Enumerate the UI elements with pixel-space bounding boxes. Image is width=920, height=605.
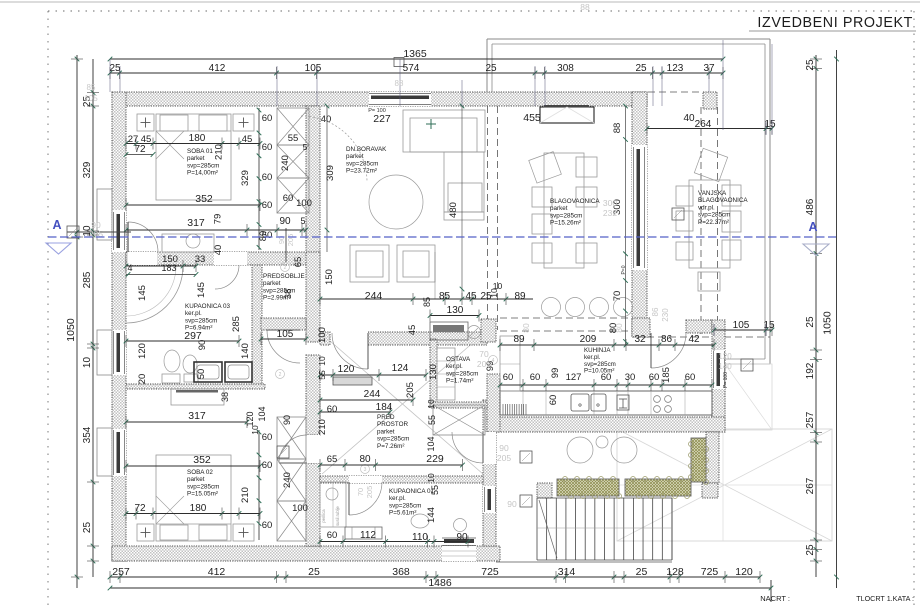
svg-text:10: 10: [426, 473, 436, 483]
svg-text:60: 60: [262, 142, 273, 153]
svg-text:55: 55: [427, 415, 437, 425]
svg-text:60: 60: [503, 372, 514, 383]
svg-text:574: 574: [403, 63, 420, 74]
svg-text:329: 329: [82, 161, 93, 178]
svg-text:25: 25: [805, 544, 816, 556]
svg-text:4: 4: [127, 263, 132, 273]
svg-text:285: 285: [231, 316, 242, 332]
svg-text:38: 38: [220, 392, 230, 402]
svg-text:45: 45: [242, 134, 253, 145]
svg-text:vdr.pl.: vdr.pl.: [698, 204, 715, 211]
svg-text:90: 90: [499, 443, 509, 453]
svg-text:25: 25: [805, 316, 816, 328]
svg-text:184: 184: [376, 402, 393, 413]
svg-text:104: 104: [426, 436, 436, 451]
svg-text:85: 85: [422, 297, 432, 307]
svg-text:20: 20: [137, 374, 148, 385]
svg-text:70: 70: [479, 349, 489, 359]
svg-text:25: 25: [805, 59, 816, 71]
svg-text:354: 354: [82, 426, 93, 443]
svg-text:NACRT :: NACRT :: [760, 594, 790, 603]
svg-text:P=5.61m²: P=5.61m²: [389, 510, 416, 517]
svg-text:parket: parket: [377, 428, 395, 435]
svg-text:1365: 1365: [403, 48, 427, 60]
svg-text:40: 40: [213, 245, 224, 256]
svg-text:25: 25: [636, 566, 648, 578]
svg-text:15: 15: [763, 320, 775, 331]
svg-text:25: 25: [308, 566, 320, 578]
svg-text:192: 192: [805, 362, 816, 379]
svg-text:60: 60: [548, 395, 559, 406]
svg-text:svp=285cm: svp=285cm: [187, 483, 219, 490]
svg-text:127: 127: [566, 372, 582, 383]
svg-text:40: 40: [683, 113, 695, 124]
svg-text:130: 130: [428, 364, 439, 380]
svg-text:105: 105: [733, 320, 750, 331]
svg-text:P=15.05m²: P=15.05m²: [187, 491, 218, 498]
svg-text:90: 90: [456, 532, 468, 543]
svg-text:svp=285cm: svp=285cm: [187, 162, 219, 169]
svg-text:OSTAVA: OSTAVA: [446, 356, 471, 363]
svg-text:210: 210: [317, 419, 328, 435]
svg-text:308: 308: [557, 63, 574, 74]
svg-text:10: 10: [82, 357, 93, 369]
svg-text:BLAGOVAONICA: BLAGOVAONICA: [698, 197, 748, 204]
svg-text:svp=285cm: svp=285cm: [389, 502, 421, 509]
svg-text:30: 30: [625, 372, 636, 383]
svg-text:parket: parket: [346, 153, 364, 160]
svg-text:120: 120: [718, 352, 732, 361]
svg-text:42: 42: [688, 334, 700, 345]
svg-text:svp=285cm: svp=285cm: [446, 370, 478, 377]
svg-text:120: 120: [735, 566, 753, 578]
svg-text:85: 85: [439, 291, 451, 302]
svg-text:parket: parket: [550, 205, 568, 212]
svg-text:P=2.99m²: P=2.99m²: [263, 295, 290, 302]
svg-text:88: 88: [612, 123, 623, 134]
svg-text:svp=285cm: svp=285cm: [263, 287, 295, 294]
svg-text:180: 180: [189, 133, 206, 144]
svg-text:100: 100: [292, 503, 308, 514]
svg-text:205: 205: [365, 486, 374, 499]
svg-text:PRED: PRED: [377, 414, 395, 421]
svg-text:150: 150: [324, 269, 335, 285]
svg-text:209: 209: [580, 334, 597, 345]
svg-text:P=23.72m²: P=23.72m²: [346, 168, 377, 175]
svg-text:3: 3: [364, 467, 367, 473]
svg-text:90: 90: [279, 216, 291, 227]
svg-text:205: 205: [497, 453, 511, 463]
svg-text:232: 232: [603, 208, 617, 218]
svg-text:KUPAONICA 01: KUPAONICA 01: [389, 488, 435, 495]
svg-text:120: 120: [338, 364, 355, 375]
svg-text:svp=285cm: svp=285cm: [550, 212, 582, 219]
svg-text:svp=285cm: svp=285cm: [185, 317, 217, 324]
svg-text:TLOCRT 1.KATA :: TLOCRT 1.KATA :: [856, 594, 914, 603]
svg-text:P=6.94m²: P=6.94m²: [185, 325, 212, 332]
svg-text:50: 50: [196, 369, 207, 380]
svg-text:P= 100: P= 100: [723, 372, 729, 388]
svg-text:60: 60: [327, 530, 338, 541]
svg-text:SOBA 02: SOBA 02: [187, 469, 213, 476]
svg-text:2: 2: [279, 372, 282, 378]
svg-text:309: 309: [325, 165, 336, 181]
svg-text:99: 99: [550, 368, 561, 379]
svg-text:264: 264: [695, 119, 712, 130]
svg-text:88: 88: [395, 79, 404, 88]
svg-text:80: 80: [359, 454, 371, 465]
svg-text:25: 25: [82, 522, 93, 534]
svg-text:240: 240: [280, 155, 291, 171]
svg-text:257: 257: [112, 566, 130, 578]
svg-text:297: 297: [184, 330, 202, 342]
svg-text:SOBA 01: SOBA 01: [187, 148, 213, 155]
svg-text:svp=285cm: svp=285cm: [346, 160, 378, 167]
svg-text:65: 65: [293, 257, 304, 268]
svg-text:412: 412: [208, 566, 226, 578]
svg-text:DN.BORAVAK: DN.BORAVAK: [346, 146, 387, 153]
svg-text:25: 25: [109, 63, 121, 74]
svg-text:300: 300: [603, 198, 617, 208]
svg-text:ker.pl.: ker.pl.: [446, 363, 463, 370]
svg-text:72: 72: [134, 503, 146, 514]
svg-text:60: 60: [262, 230, 273, 241]
svg-text:89: 89: [513, 334, 525, 345]
svg-text:BLAGOVAONICA: BLAGOVAONICA: [550, 198, 600, 205]
svg-text:90: 90: [507, 499, 517, 509]
svg-text:240: 240: [282, 472, 293, 488]
svg-text:P=22.37m²: P=22.37m²: [698, 219, 729, 226]
svg-text:352: 352: [193, 454, 211, 466]
svg-text:455: 455: [523, 112, 541, 124]
svg-text:60: 60: [649, 372, 660, 383]
svg-text:486: 486: [805, 198, 816, 215]
svg-text:140: 140: [240, 343, 251, 359]
svg-text:100: 100: [296, 198, 312, 209]
svg-text:110: 110: [412, 532, 428, 543]
svg-text:60: 60: [262, 432, 273, 443]
svg-text:P=0: P=0: [621, 265, 627, 274]
svg-text:89: 89: [514, 291, 526, 302]
svg-text:72: 72: [134, 144, 146, 155]
svg-text:55: 55: [317, 370, 327, 380]
svg-text:227: 227: [373, 113, 391, 125]
svg-text:123: 123: [667, 63, 684, 74]
svg-text:100: 100: [317, 327, 328, 343]
svg-text:144: 144: [426, 507, 437, 523]
svg-text:susil.rublje: susil.rublje: [335, 505, 340, 525]
svg-text:180: 180: [190, 503, 207, 514]
svg-text:IZVEDBENI PROJEKT: IZVEDBENI PROJEKT: [757, 15, 913, 31]
svg-text:P=1.74m²: P=1.74m²: [446, 378, 473, 385]
svg-text:267: 267: [805, 477, 816, 494]
svg-text:PREDSOBLJE: PREDSOBLJE: [263, 273, 305, 280]
svg-text:185: 185: [661, 367, 672, 383]
svg-text:257: 257: [805, 411, 816, 428]
svg-text:229: 229: [426, 453, 444, 465]
svg-text:104: 104: [257, 406, 267, 421]
svg-text:KUPAONICA 03: KUPAONICA 03: [185, 303, 231, 310]
svg-text:perilica: perilica: [321, 509, 326, 523]
svg-text:140: 140: [718, 362, 732, 371]
svg-text:65: 65: [327, 454, 338, 465]
svg-text:368: 368: [392, 566, 410, 578]
svg-text:2: 2: [284, 265, 287, 271]
svg-text:285: 285: [82, 271, 93, 288]
svg-text:P=15.26m²: P=15.26m²: [550, 220, 581, 227]
svg-text:480: 480: [448, 202, 459, 218]
svg-text:60: 60: [262, 460, 273, 471]
svg-text:PROSTOR: PROSTOR: [377, 421, 408, 428]
svg-text:VANJSKA: VANJSKA: [698, 190, 727, 197]
svg-text:352: 352: [195, 193, 213, 205]
svg-text:80: 80: [614, 323, 624, 333]
svg-text:33: 33: [195, 254, 206, 265]
svg-text:60: 60: [262, 113, 273, 124]
svg-text:112: 112: [360, 530, 376, 541]
svg-text:120: 120: [245, 411, 255, 426]
svg-text:45: 45: [407, 325, 418, 336]
svg-text:32: 32: [634, 334, 646, 345]
svg-text:86: 86: [661, 334, 673, 345]
svg-text:svp=285cm: svp=285cm: [698, 212, 730, 219]
svg-text:412: 412: [209, 63, 226, 74]
svg-text:parket: parket: [263, 280, 281, 287]
svg-text:105: 105: [84, 94, 98, 103]
svg-text:1486: 1486: [428, 577, 452, 589]
svg-text:130: 130: [447, 305, 464, 316]
svg-text:145: 145: [196, 282, 207, 298]
svg-text:314: 314: [558, 566, 576, 578]
svg-text:205: 205: [405, 382, 416, 398]
svg-text:10: 10: [250, 425, 260, 435]
svg-text:120: 120: [137, 343, 148, 359]
svg-text:60: 60: [685, 372, 696, 383]
svg-text:60: 60: [262, 520, 273, 531]
svg-text:90: 90: [282, 415, 292, 425]
svg-text:1050: 1050: [822, 311, 834, 335]
svg-text:55: 55: [288, 133, 299, 144]
svg-text:230: 230: [661, 308, 670, 322]
svg-text:60: 60: [262, 200, 273, 211]
svg-text:parket: parket: [187, 155, 205, 162]
svg-text:P=7.26m²: P=7.26m²: [377, 443, 404, 450]
svg-text:25: 25: [485, 63, 497, 74]
svg-text:60: 60: [530, 372, 541, 383]
svg-text:ker.pl.: ker.pl.: [389, 495, 406, 502]
svg-text:60: 60: [262, 172, 273, 183]
svg-text:parket: parket: [187, 476, 205, 483]
svg-text:ker.pl.: ker.pl.: [185, 310, 202, 317]
svg-text:329: 329: [240, 170, 251, 186]
svg-text:88: 88: [580, 2, 590, 12]
svg-text:P=10.05m²: P=10.05m²: [584, 368, 614, 375]
svg-text:210: 210: [214, 144, 225, 160]
svg-text:183: 183: [161, 263, 176, 273]
svg-text:P=14,00m²: P=14,00m²: [187, 170, 218, 177]
svg-text:725: 725: [481, 566, 499, 578]
svg-text:86: 86: [651, 307, 660, 316]
svg-text:79: 79: [213, 214, 224, 225]
svg-text:5: 5: [300, 216, 305, 226]
svg-text:725: 725: [701, 566, 719, 578]
svg-text:317: 317: [187, 217, 205, 229]
svg-text:10: 10: [489, 288, 499, 298]
svg-text:317: 317: [188, 410, 206, 422]
svg-text:45: 45: [465, 291, 477, 302]
svg-text:205: 205: [477, 359, 491, 369]
svg-text:210: 210: [240, 487, 251, 503]
svg-text:205: 205: [286, 234, 295, 247]
svg-text:25: 25: [635, 63, 647, 74]
svg-text:A: A: [808, 220, 817, 234]
svg-text:244: 244: [365, 290, 383, 302]
svg-text:P= 100: P= 100: [368, 108, 386, 114]
svg-text:1050: 1050: [65, 318, 77, 342]
svg-text:5: 5: [303, 142, 308, 152]
svg-text:10: 10: [426, 399, 436, 409]
svg-text:70: 70: [612, 291, 623, 302]
svg-text:244: 244: [364, 389, 381, 400]
svg-text:85: 85: [87, 83, 96, 92]
svg-text:105: 105: [277, 329, 294, 340]
svg-text:80: 80: [521, 323, 531, 333]
svg-text:145: 145: [137, 285, 148, 301]
svg-text:128: 128: [666, 566, 684, 578]
svg-text:10: 10: [317, 356, 327, 366]
svg-text:124: 124: [392, 363, 409, 374]
svg-text:60: 60: [327, 404, 338, 415]
svg-text:A: A: [52, 218, 61, 232]
svg-text:svp=285cm: svp=285cm: [377, 436, 409, 443]
svg-text:70: 70: [356, 488, 365, 496]
svg-text:60: 60: [283, 193, 294, 204]
svg-text:105: 105: [305, 63, 322, 74]
